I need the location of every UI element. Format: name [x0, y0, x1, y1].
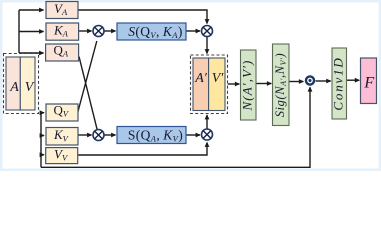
- svg-text:Conv1D: Conv1D: [331, 56, 346, 110]
- svg-text:V: V: [25, 80, 35, 95]
- svg-text:A′: A′: [194, 71, 208, 86]
- svg-text:N(A′,V′): N(A′,V′): [240, 60, 255, 112]
- svg-text:F: F: [363, 75, 374, 92]
- svg-text:V′: V′: [212, 71, 225, 86]
- svg-text:A: A: [9, 80, 19, 95]
